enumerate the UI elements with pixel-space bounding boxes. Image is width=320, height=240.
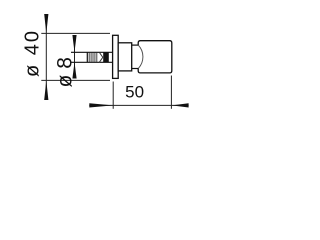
dimension ø8 : top arrowhead <box>72 35 76 52</box>
dimension 50 : right arrowhead <box>172 103 189 107</box>
part : thread runout chevron <box>99 52 103 62</box>
dimension ø8 : dimension line <box>74 35 76 79</box>
dimension 50 : left arrowhead <box>89 103 113 107</box>
part : collar nut (filled) <box>103 52 109 62</box>
dimension ø40 : extension lines <box>41 33 110 80</box>
dimension ø40 : top arrowhead <box>44 14 48 33</box>
svg-text:50: 50 <box>125 83 144 102</box>
part : threaded shaft outline <box>71 52 113 62</box>
dimension ø8 : bottom arrowhead <box>72 62 76 78</box>
part : flange disc ø40 <box>113 35 119 78</box>
dimension 50 : dimension line <box>89 104 188 106</box>
part : thread crest lines <box>89 53 97 63</box>
part : neck bottom edge <box>132 68 139 70</box>
part : knob body outline <box>138 41 172 73</box>
dimension ø40 : dimension line <box>45 14 47 100</box>
dimension ø40 : bottom arrowhead <box>44 81 48 101</box>
svg-text:ø 40: ø 40 <box>22 31 44 77</box>
svg-text:ø 8: ø 8 <box>54 57 77 87</box>
part : neck top edge <box>132 44 139 46</box>
part : knob front dome arc <box>138 45 143 68</box>
part : hub cylinder <box>118 43 132 71</box>
dimension 50 : extension lines <box>113 76 171 109</box>
